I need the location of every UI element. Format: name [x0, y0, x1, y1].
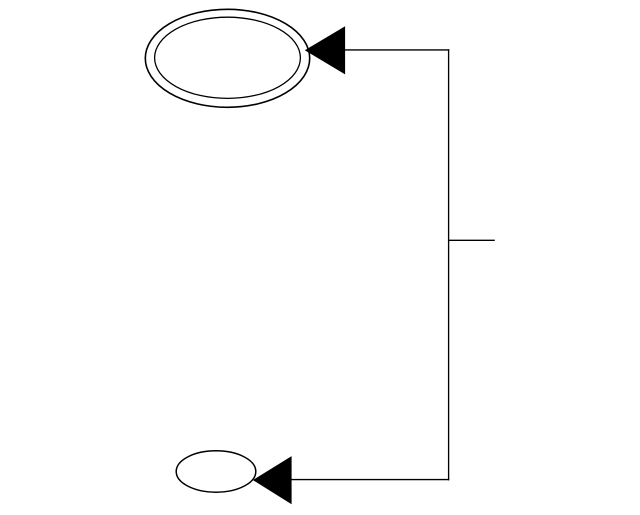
arrowhead into node B: [253, 456, 292, 504]
wire: stub toward parent node (right, middle): [449, 239, 495, 241]
wire: horizontal segment from trunk into node B: [291, 479, 450, 481]
node B (state, ellipse): [176, 451, 256, 492]
wire: horizontal segment from trunk into node A: [344, 49, 449, 51]
node A (accepting state, double ellipse): [145, 9, 309, 107]
arrowhead into node A: [305, 26, 345, 74]
wire: vertical trunk segment: [448, 49, 450, 480]
